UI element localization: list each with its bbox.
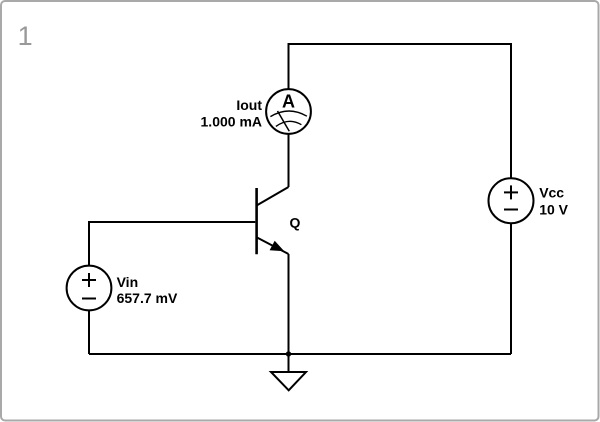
label Vin value: [117, 274, 178, 306]
svg-text:1: 1: [18, 21, 33, 51]
svg-text:A: A: [282, 91, 295, 111]
svg-text:Vcc: Vcc: [539, 185, 564, 201]
wire emitter to bottom rail: [288, 254, 290, 354]
voltage source Vin: [67, 266, 112, 311]
wire Vcc branch: [510, 223, 512, 354]
wire ammeter to collector: [288, 134, 290, 187]
wire base: [89, 222, 255, 266]
ground: [271, 354, 306, 390]
wire Vin to bottom rail: [88, 310, 90, 354]
label Iout value: [201, 97, 263, 130]
voltage source Vcc: [489, 178, 534, 223]
svg-text:Vin: Vin: [117, 274, 139, 290]
svg-text:1.000 mA: 1.000 mA: [201, 113, 262, 129]
node junction dot: [286, 351, 291, 356]
transistor Q: [257, 187, 289, 254]
svg-text:10 V: 10 V: [539, 201, 568, 217]
ammeter Iout: [266, 89, 311, 134]
svg-text:Iout: Iout: [236, 97, 262, 113]
wire bottom rail: [89, 353, 511, 355]
wire top collector loop: [289, 44, 512, 179]
svg-text:657.7 mV: 657.7 mV: [117, 290, 178, 306]
label Vcc value: [539, 185, 568, 218]
svg-text:Q: Q: [290, 215, 301, 231]
